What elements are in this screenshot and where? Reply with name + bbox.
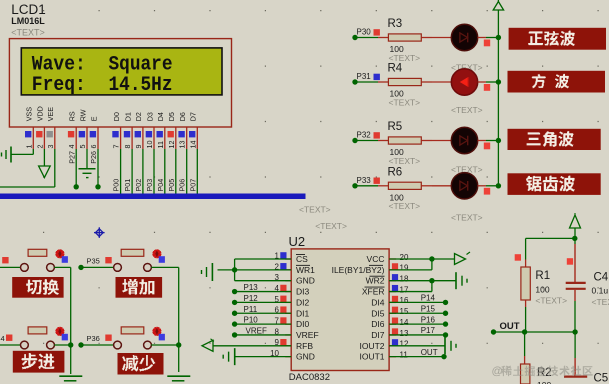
wire U2 RFB to power <box>213 345 291 347</box>
stray property label <TEXT> above U2 <box>299 205 331 215</box>
power terminal (LED supply, arrow up) <box>493 0 503 10</box>
wire U2 DI4 (net P14) <box>389 300 448 305</box>
svg-text:VEE: VEE <box>46 107 55 122</box>
net label P26 <box>89 151 98 164</box>
svg-text:Square: Square <box>109 53 173 76</box>
svg-text:15: 15 <box>400 307 409 316</box>
wire U2 VREF (net VREF) <box>232 332 291 337</box>
wire LCD data pin D1 to bus (net P01) <box>131 149 133 194</box>
U2 pin 14 (DI6) label <box>371 318 409 330</box>
U2 pin 15 (DI5) label <box>371 307 409 319</box>
ground (U2 CS/WR1/GND) <box>202 263 213 281</box>
svg-text:10: 10 <box>145 141 154 149</box>
LED D4 (off) <box>451 173 477 199</box>
wire U2 DI3 (net P13) <box>232 289 291 294</box>
U2 pin 16 (DI4) label <box>371 296 409 308</box>
R3 reference label <box>388 18 403 30</box>
svg-text:DI5: DI5 <box>371 308 385 318</box>
net label P00 <box>112 179 121 192</box>
R5 reference label <box>388 121 403 133</box>
svg-text:Freq:: Freq: <box>32 74 86 97</box>
ground (button columns right) <box>167 376 190 381</box>
svg-text:D5: D5 <box>167 112 176 121</box>
net label P36 <box>87 334 112 343</box>
net label P01 <box>123 179 132 192</box>
wire LCD data pin D4 to bus (net P04) <box>164 149 166 194</box>
bus (P00-P07 data bus) <box>0 194 306 200</box>
svg-text:D1: D1 <box>123 112 132 121</box>
R4 property label <TEXT> <box>389 97 421 107</box>
svg-text:WR1: WR1 <box>296 265 315 275</box>
wire LCD data pin D0 to bus (net P00) <box>120 149 122 194</box>
power terminal (U2 VCC, arrow right) <box>455 252 471 265</box>
svg-text:XFER: XFER <box>362 287 385 297</box>
wire left edge to button SW3 <box>0 344 21 346</box>
LCD display LCD1 body <box>9 39 231 127</box>
R6 reference label <box>388 166 403 178</box>
wire LCD data pin D7 to bus (net P07) <box>196 149 198 194</box>
wire U2 DI0 (net P10) <box>232 321 291 326</box>
svg-text:IOUT1: IOUT1 <box>359 352 384 362</box>
wire net P35 to button SW2 <box>78 265 114 270</box>
R6 property label <TEXT> <box>389 201 421 211</box>
LCD1 pin 12 (D5) <box>167 112 176 149</box>
svg-text:9: 9 <box>134 145 143 149</box>
wire SW2 to ground rail right <box>151 267 181 372</box>
wire R6 to LED <box>432 185 452 187</box>
U2 pin 1 (CS) label <box>275 251 309 264</box>
svg-text:14: 14 <box>188 141 197 149</box>
wire U2 IOUT1 (net OUT) <box>389 354 447 359</box>
svg-text:DAC0832: DAC0832 <box>289 372 330 383</box>
LED D1 (off) <box>451 24 477 50</box>
net label P32 <box>357 131 380 140</box>
LED D3 property label <TEXT> <box>451 165 483 175</box>
net label P11 <box>244 305 258 314</box>
LCD1 pin 14 (D7) <box>188 112 197 149</box>
resistor R6 <box>378 182 432 189</box>
svg-text:CS: CS <box>296 254 308 264</box>
wire SW4 to ground rail right <box>151 344 179 346</box>
ground (LCD VSS) <box>2 147 12 163</box>
resistor R1 <box>521 260 530 308</box>
capacitor C5 <box>564 332 587 377</box>
svg-text:DI0: DI0 <box>296 319 310 329</box>
U2 pin 10 (GND) label <box>270 349 315 362</box>
net label P16 <box>421 315 436 324</box>
net label P02 <box>134 179 143 192</box>
svg-text:GND: GND <box>296 352 315 362</box>
svg-text:<TEXT>: <TEXT> <box>389 97 421 107</box>
svg-text:DI7: DI7 <box>371 330 385 340</box>
wire U2 GND pin10 to ground <box>235 356 292 358</box>
power terminal (LCD VDD, arrow down) <box>39 166 51 178</box>
svg-text:0.1u: 0.1u <box>592 286 609 296</box>
LED D3 (off) <box>451 127 477 153</box>
R4 value label 100 <box>390 89 404 99</box>
svg-text:VREF: VREF <box>246 326 267 335</box>
net label P05 <box>167 179 176 192</box>
wire LCD pin6 E (net P26) <box>95 149 100 190</box>
U2 pin 11 (IOUT1) label <box>359 350 408 361</box>
svg-text:Wave:: Wave: <box>32 53 86 76</box>
R3 value label 100 <box>390 44 404 54</box>
origin marker (blue crosshair) <box>94 227 105 238</box>
net label P06 <box>178 179 187 192</box>
svg-text:P01: P01 <box>123 179 132 192</box>
net label P04 <box>156 179 165 192</box>
svg-text:GND: GND <box>296 276 315 286</box>
U2 pin 18 (WR2) label <box>366 274 409 286</box>
wire LCD pin1 VSS to ground <box>11 149 33 154</box>
svg-text:4: 4 <box>67 145 76 149</box>
annotation banner 锯齿波 <box>508 173 601 195</box>
op-amp U2 reference label <box>289 234 306 249</box>
LCD1 pin 3 (VEE) <box>46 107 55 149</box>
R5 property label <TEXT> <box>389 156 421 166</box>
svg-text:<TEXT>: <TEXT> <box>389 201 421 211</box>
ground (U2 WR2) <box>456 272 467 289</box>
LCD1 pin 9 (D2) <box>134 112 143 149</box>
wire SW1 to ground rail <box>54 267 73 374</box>
wire LED D4 to cathode rail <box>478 183 501 195</box>
C4 state square <box>567 258 573 265</box>
svg-text:P33: P33 <box>357 176 372 185</box>
R4 reference label <box>388 63 403 75</box>
svg-text:2: 2 <box>35 145 44 149</box>
U2 pin 3 (GND) label <box>275 273 315 286</box>
svg-text:18: 18 <box>400 275 409 284</box>
net label P14 <box>421 294 436 303</box>
svg-text:DI6: DI6 <box>371 319 385 329</box>
svg-text:P13: P13 <box>244 283 259 292</box>
net label P31 <box>357 72 380 81</box>
wire LCD data pin D5 to bus (net P05) <box>175 149 177 194</box>
wire LED D3 to cathode rail <box>478 138 501 150</box>
svg-text:<TEXT>: <TEXT> <box>535 296 567 306</box>
power terminal (U2 RFB, arrow left) <box>202 339 214 352</box>
svg-text:U2: U2 <box>289 234 306 249</box>
capacitor C4 <box>566 238 586 332</box>
net label P35 <box>87 256 112 265</box>
push button SW2 (increase) <box>114 249 165 271</box>
svg-text:12: 12 <box>167 141 176 149</box>
wire R5 to LED <box>432 140 452 142</box>
svg-text:RS: RS <box>68 111 77 121</box>
svg-text:P35: P35 <box>87 256 100 265</box>
wire U2 DI6 (net P16) <box>389 321 448 326</box>
net label P03 <box>145 179 154 192</box>
svg-text:R3: R3 <box>388 18 403 30</box>
net label P10 <box>244 316 259 325</box>
net label P12 <box>244 294 259 303</box>
net label P30 <box>357 28 380 37</box>
push button SW4 (decrease) <box>114 327 165 349</box>
net label P27 <box>67 151 76 164</box>
svg-text:P07: P07 <box>188 179 197 192</box>
net label VREF <box>246 326 267 335</box>
U2 pin 6 (DI1) label <box>275 306 310 319</box>
wire LCD pin4 RS (net P27) <box>74 149 79 190</box>
svg-text:<TEXT>: <TEXT> <box>451 213 483 223</box>
IC U2 DAC0832 body <box>285 249 396 371</box>
C4 property label <TEXT> <box>592 297 609 307</box>
svg-text:<TEXT>: <TEXT> <box>451 105 483 115</box>
svg-text:R5: R5 <box>388 121 403 133</box>
annotation banner 方波 <box>508 71 606 93</box>
wire R3 to LED <box>432 37 452 39</box>
wire U2 XFER to WR2 ground rail <box>389 278 434 292</box>
resistor R3 <box>378 34 432 41</box>
svg-text:P00: P00 <box>112 179 121 192</box>
C5 reference label <box>594 373 609 384</box>
wire U2 DI7 (net P17) <box>389 332 448 337</box>
svg-text:@: @ <box>492 366 503 378</box>
svg-text:<TEXT>: <TEXT> <box>389 53 421 63</box>
LED D2 property label <TEXT> <box>451 105 483 115</box>
LCD1 screen text line 2: Freq: 14.5Hz <box>32 74 173 97</box>
push button SW3 (step) <box>21 327 68 349</box>
svg-text:LCD1: LCD1 <box>11 2 46 17</box>
svg-text:13: 13 <box>400 329 409 338</box>
wire U2 DI2 (net P12) <box>232 300 291 305</box>
LCD1 pin 10 (D3) <box>145 112 154 149</box>
svg-text:14.5Hz: 14.5Hz <box>109 74 173 97</box>
svg-text:ILE(BY1/BY2): ILE(BY1/BY2) <box>332 265 385 275</box>
LCD1 pin 13 (D6) <box>178 112 187 149</box>
wire SW3 to ground rail <box>54 344 70 346</box>
LCD1 value label LM016L <box>11 16 45 26</box>
wire P31 to R4 <box>352 79 378 84</box>
U2 pin 7 (DI0) label <box>275 317 310 330</box>
svg-text:P36: P36 <box>87 334 100 343</box>
net label OUT (filter) <box>500 321 520 332</box>
ground (U2 IOUT2) <box>445 337 456 354</box>
svg-text:13: 13 <box>178 141 187 149</box>
wire U2 IOUT2 to ground <box>389 345 445 347</box>
annotation banner 步进 <box>13 351 65 373</box>
svg-text:3: 3 <box>46 145 55 149</box>
wire LED cathode rail vertical <box>497 10 499 186</box>
svg-text:P31: P31 <box>357 72 372 81</box>
svg-text:VSS: VSS <box>25 107 34 122</box>
LCD1 green screen <box>21 48 222 95</box>
svg-text:OUT: OUT <box>500 321 520 332</box>
annotation banner 减少 <box>118 353 164 375</box>
net label P07 <box>188 179 197 192</box>
LCD1 pin 11 (D4) <box>156 112 165 149</box>
svg-text:P16: P16 <box>421 315 436 324</box>
svg-text:D3: D3 <box>145 112 154 121</box>
svg-text:P30: P30 <box>357 28 372 37</box>
svg-text:P05: P05 <box>167 179 176 192</box>
svg-text:19: 19 <box>400 264 409 273</box>
svg-text:DI1: DI1 <box>296 308 310 318</box>
power terminal (filter, arrow up) <box>570 213 581 228</box>
svg-text:D4: D4 <box>156 112 165 121</box>
svg-text:16: 16 <box>400 296 409 305</box>
wire left edge to button SW1 <box>0 266 21 268</box>
wire LCD data pin D2 to bus (net P02) <box>142 149 144 194</box>
wire U2 DI5 (net P15) <box>389 311 448 316</box>
svg-text:R4: R4 <box>388 63 403 75</box>
svg-text:OUT: OUT <box>421 348 438 357</box>
svg-text:R6: R6 <box>388 166 403 178</box>
U2 pin 19 (ILE(BY1/BY2)) label <box>332 263 409 275</box>
U2 part number label DAC0832 <box>289 372 330 383</box>
svg-text:E: E <box>89 116 98 121</box>
U2 pin 2 (WR1) label <box>275 262 316 275</box>
wire LCD data pin D6 to bus (net P06) <box>186 149 188 194</box>
R6 value label 100 <box>390 192 404 202</box>
wire OUT node <box>491 329 578 334</box>
svg-text:11: 11 <box>400 350 409 359</box>
R2 reference label <box>537 367 552 379</box>
wire power to R1/C4 <box>526 228 578 260</box>
svg-text:C5: C5 <box>594 373 609 384</box>
svg-text:P26: P26 <box>89 151 98 164</box>
svg-text:D0: D0 <box>112 112 121 121</box>
R1 value label 100 <box>535 285 549 295</box>
LCD1 pin 8 (D1) <box>123 112 132 149</box>
svg-text:D7: D7 <box>189 112 198 121</box>
svg-text:<TEXT>: <TEXT> <box>299 205 331 215</box>
svg-text:VREF: VREF <box>296 330 319 340</box>
R1 property label <TEXT> <box>535 296 567 306</box>
wire R1 to OUT node <box>525 307 527 332</box>
wire P33 to R6 <box>352 183 378 188</box>
svg-text:P02: P02 <box>134 179 143 192</box>
LED D2 (lit) <box>451 69 477 95</box>
svg-text:DI4: DI4 <box>371 297 385 307</box>
svg-text:D6: D6 <box>178 112 187 121</box>
LCD1 pin 2 (VDD) <box>35 106 44 149</box>
svg-text:P15: P15 <box>421 304 436 313</box>
LCD1 pin 1 (VSS) <box>24 107 33 149</box>
ground (U2 pin10) <box>223 348 235 365</box>
wire U2 DI1 (net P11) <box>232 311 291 316</box>
wire U2 CS/WR1/GND to ground <box>218 259 292 281</box>
svg-text:DI2: DI2 <box>296 297 310 307</box>
R1 state square <box>515 254 521 261</box>
annotation banner 切换 <box>12 277 63 298</box>
U2 pin 4 (DI3) label <box>275 284 310 297</box>
svg-text:R1: R1 <box>535 270 550 282</box>
svg-text:D2: D2 <box>134 112 143 121</box>
annotation banner 增加 <box>116 277 163 298</box>
resistor R2 <box>521 332 530 384</box>
LCD1 pin 6 (E) <box>89 116 98 149</box>
svg-text:P27: P27 <box>67 151 76 164</box>
svg-text:7: 7 <box>112 145 121 149</box>
LCD1 pin 7 (D0) <box>112 112 121 149</box>
wire P30 to R3 <box>352 35 378 40</box>
U2 pin 8 (VREF) label <box>275 327 319 340</box>
svg-text:P04: P04 <box>156 179 165 192</box>
wire LED D1 to cathode rail <box>478 35 501 47</box>
LED D4 property label <TEXT> <box>451 213 483 223</box>
LCD1 property label <TEXT> <box>11 28 45 38</box>
svg-text:P14: P14 <box>421 294 436 303</box>
resistor R5 <box>378 137 432 144</box>
svg-text:4: 4 <box>1 334 5 343</box>
svg-text:<TEXT>: <TEXT> <box>592 297 609 307</box>
svg-text:20: 20 <box>400 253 409 262</box>
net label OUT (U2 output) <box>421 348 438 357</box>
annotation banner 正弦波 <box>509 28 606 50</box>
svg-text:100: 100 <box>535 285 549 295</box>
net label P13 <box>244 283 259 292</box>
ground (LCD RW) <box>79 169 96 178</box>
annotation banner 三角波 <box>508 129 601 150</box>
watermark <box>492 366 593 378</box>
svg-text:17: 17 <box>400 285 409 294</box>
U2 pin 13 (DI7) label <box>371 328 409 340</box>
R1 reference label <box>535 270 550 282</box>
svg-text:100: 100 <box>537 380 551 384</box>
LCD1 pin 4 (RS) <box>67 111 76 149</box>
svg-text:VCC: VCC <box>367 254 385 264</box>
LED D1 property label <TEXT> <box>451 63 483 73</box>
LCD1 pin 5 (RW) <box>78 109 87 149</box>
svg-text:LM016L: LM016L <box>11 16 45 26</box>
wire LCD pin3 VEE to left edge <box>0 149 55 187</box>
U2 pin 20 (VCC) label <box>367 253 409 264</box>
svg-text:8: 8 <box>123 145 132 149</box>
wire LCD data pin D3 to bus (net P03) <box>153 149 155 194</box>
svg-text:RW: RW <box>78 109 87 121</box>
svg-text:14: 14 <box>400 318 409 327</box>
svg-text:P32: P32 <box>357 131 372 140</box>
svg-text:P06: P06 <box>178 179 187 192</box>
wire P32 to R5 <box>352 138 378 143</box>
ground (button columns left) <box>59 376 82 381</box>
U2 pin 17 (XFER) label <box>362 285 409 297</box>
stray property label <TEXT> above U2 right <box>315 221 347 231</box>
svg-text:5: 5 <box>78 145 87 149</box>
U2 pin 5 (DI2) label <box>275 295 310 308</box>
wire LCD pin2 VDD to power <box>43 149 45 166</box>
svg-text:12: 12 <box>400 340 409 349</box>
push button SW1 (switch) <box>21 249 68 271</box>
net label P34 (clipped at left edge, row 2) <box>1 334 13 343</box>
U2 pin 9 (RFB) label <box>275 338 314 351</box>
R5 value label 100 <box>390 147 404 157</box>
svg-text:P17: P17 <box>421 326 436 335</box>
svg-text:P12: P12 <box>244 294 259 303</box>
R2 value label 100 <box>537 380 551 384</box>
resistor R4 <box>378 78 432 85</box>
LCD1 screen text line 1: Wave: Square <box>32 53 173 76</box>
svg-text:DI3: DI3 <box>296 287 310 297</box>
net label P17 <box>421 326 436 335</box>
svg-text:IOUT2: IOUT2 <box>359 341 384 351</box>
U2 pin 12 (IOUT2) label <box>359 339 408 351</box>
wire R4 to LED <box>432 81 452 83</box>
R3 property label <TEXT> <box>389 53 421 63</box>
svg-text:P03: P03 <box>145 179 154 192</box>
wire LCD pin5 RW to ground <box>86 149 88 168</box>
net label P34 (clipped at left edge, row 1) <box>2 257 8 263</box>
svg-text:WR2: WR2 <box>366 276 385 286</box>
svg-text:6: 6 <box>89 145 98 149</box>
net label P33 <box>357 176 380 185</box>
svg-text:C4: C4 <box>594 272 609 284</box>
wire net P36 to button SW4 <box>78 342 114 347</box>
wire U2 WR2 to ground <box>389 280 456 282</box>
wire LED D2 to cathode rail <box>478 79 501 91</box>
C4 reference label <box>594 272 609 284</box>
